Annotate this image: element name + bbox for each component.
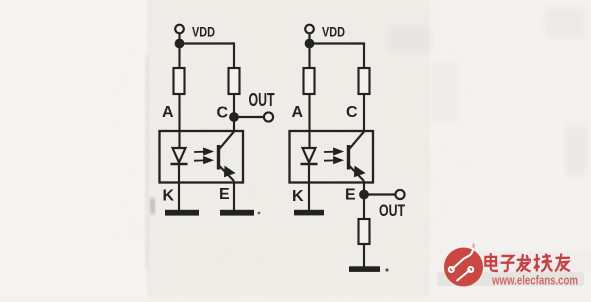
wire	[310, 44, 365, 69]
子	[501, 256, 515, 271]
wire	[234, 116, 264, 118]
svg-text:VDD: VDD	[322, 24, 345, 40]
elecfans logo	[444, 244, 483, 287]
resistor R3	[304, 68, 315, 94]
svg-text:A: A	[292, 104, 304, 121]
node C (left OUT junction)	[230, 113, 238, 121]
svg-text:www.elecfans.com: www.elecfans.com	[491, 273, 578, 288]
svg-text:E: E	[345, 187, 356, 204]
wire	[233, 181, 235, 210]
optocoupler U1 box	[160, 131, 244, 183]
svg-text:E: E	[219, 186, 230, 203]
resistor R1	[174, 68, 185, 94]
wire	[178, 94, 180, 148]
wire	[364, 193, 396, 195]
烧	[534, 253, 553, 271]
phototransistor Q2	[347, 145, 350, 170]
svg-text:OUT: OUT	[379, 201, 405, 220]
wire	[178, 33, 180, 68]
node (right VDD junction)	[306, 40, 314, 48]
wire	[308, 164, 310, 210]
wire	[363, 244, 365, 267]
wire	[180, 44, 235, 69]
ground (left E)	[220, 210, 254, 216]
LED D2	[303, 148, 316, 163]
resistor R4	[359, 68, 370, 94]
VDD terminal (right)	[305, 25, 314, 34]
resistor R5	[359, 219, 370, 244]
watermark text 电子发烧友 (drawn strokes)	[485, 253, 570, 271]
电	[485, 253, 498, 271]
wire	[233, 94, 235, 131]
light arrows U1	[194, 149, 212, 163]
wire	[178, 164, 180, 210]
OUT terminal (left)	[264, 112, 273, 121]
友	[555, 253, 570, 271]
VDD terminal (left)	[175, 25, 184, 34]
phototransistor Q1	[217, 145, 220, 170]
发	[516, 254, 531, 271]
watermark band upper	[478, 251, 591, 273]
node E (right OUT junction)	[360, 191, 368, 199]
ground (right K)	[294, 210, 324, 216]
optocoupler U2 box	[290, 131, 374, 183]
svg-text:C: C	[217, 105, 229, 122]
resistor R2	[229, 68, 240, 94]
svg-text:OUT: OUT	[249, 90, 275, 110]
OUT terminal (right)	[395, 190, 404, 199]
svg-text:C: C	[346, 104, 358, 121]
ground (left K)	[165, 210, 199, 216]
svg-text:VDD: VDD	[192, 24, 215, 40]
light arrows U2	[324, 149, 342, 163]
wire	[308, 33, 310, 68]
watermark band lower	[437, 272, 584, 286]
wire	[363, 94, 365, 131]
svg-text:K: K	[292, 188, 304, 205]
wire	[363, 181, 365, 219]
svg-text:K: K	[163, 188, 175, 205]
ground (right bottom)	[349, 266, 380, 272]
svg-text:A: A	[162, 104, 174, 121]
wire	[308, 94, 310, 148]
LED D1	[173, 148, 186, 163]
node (left VDD junction)	[176, 40, 184, 48]
